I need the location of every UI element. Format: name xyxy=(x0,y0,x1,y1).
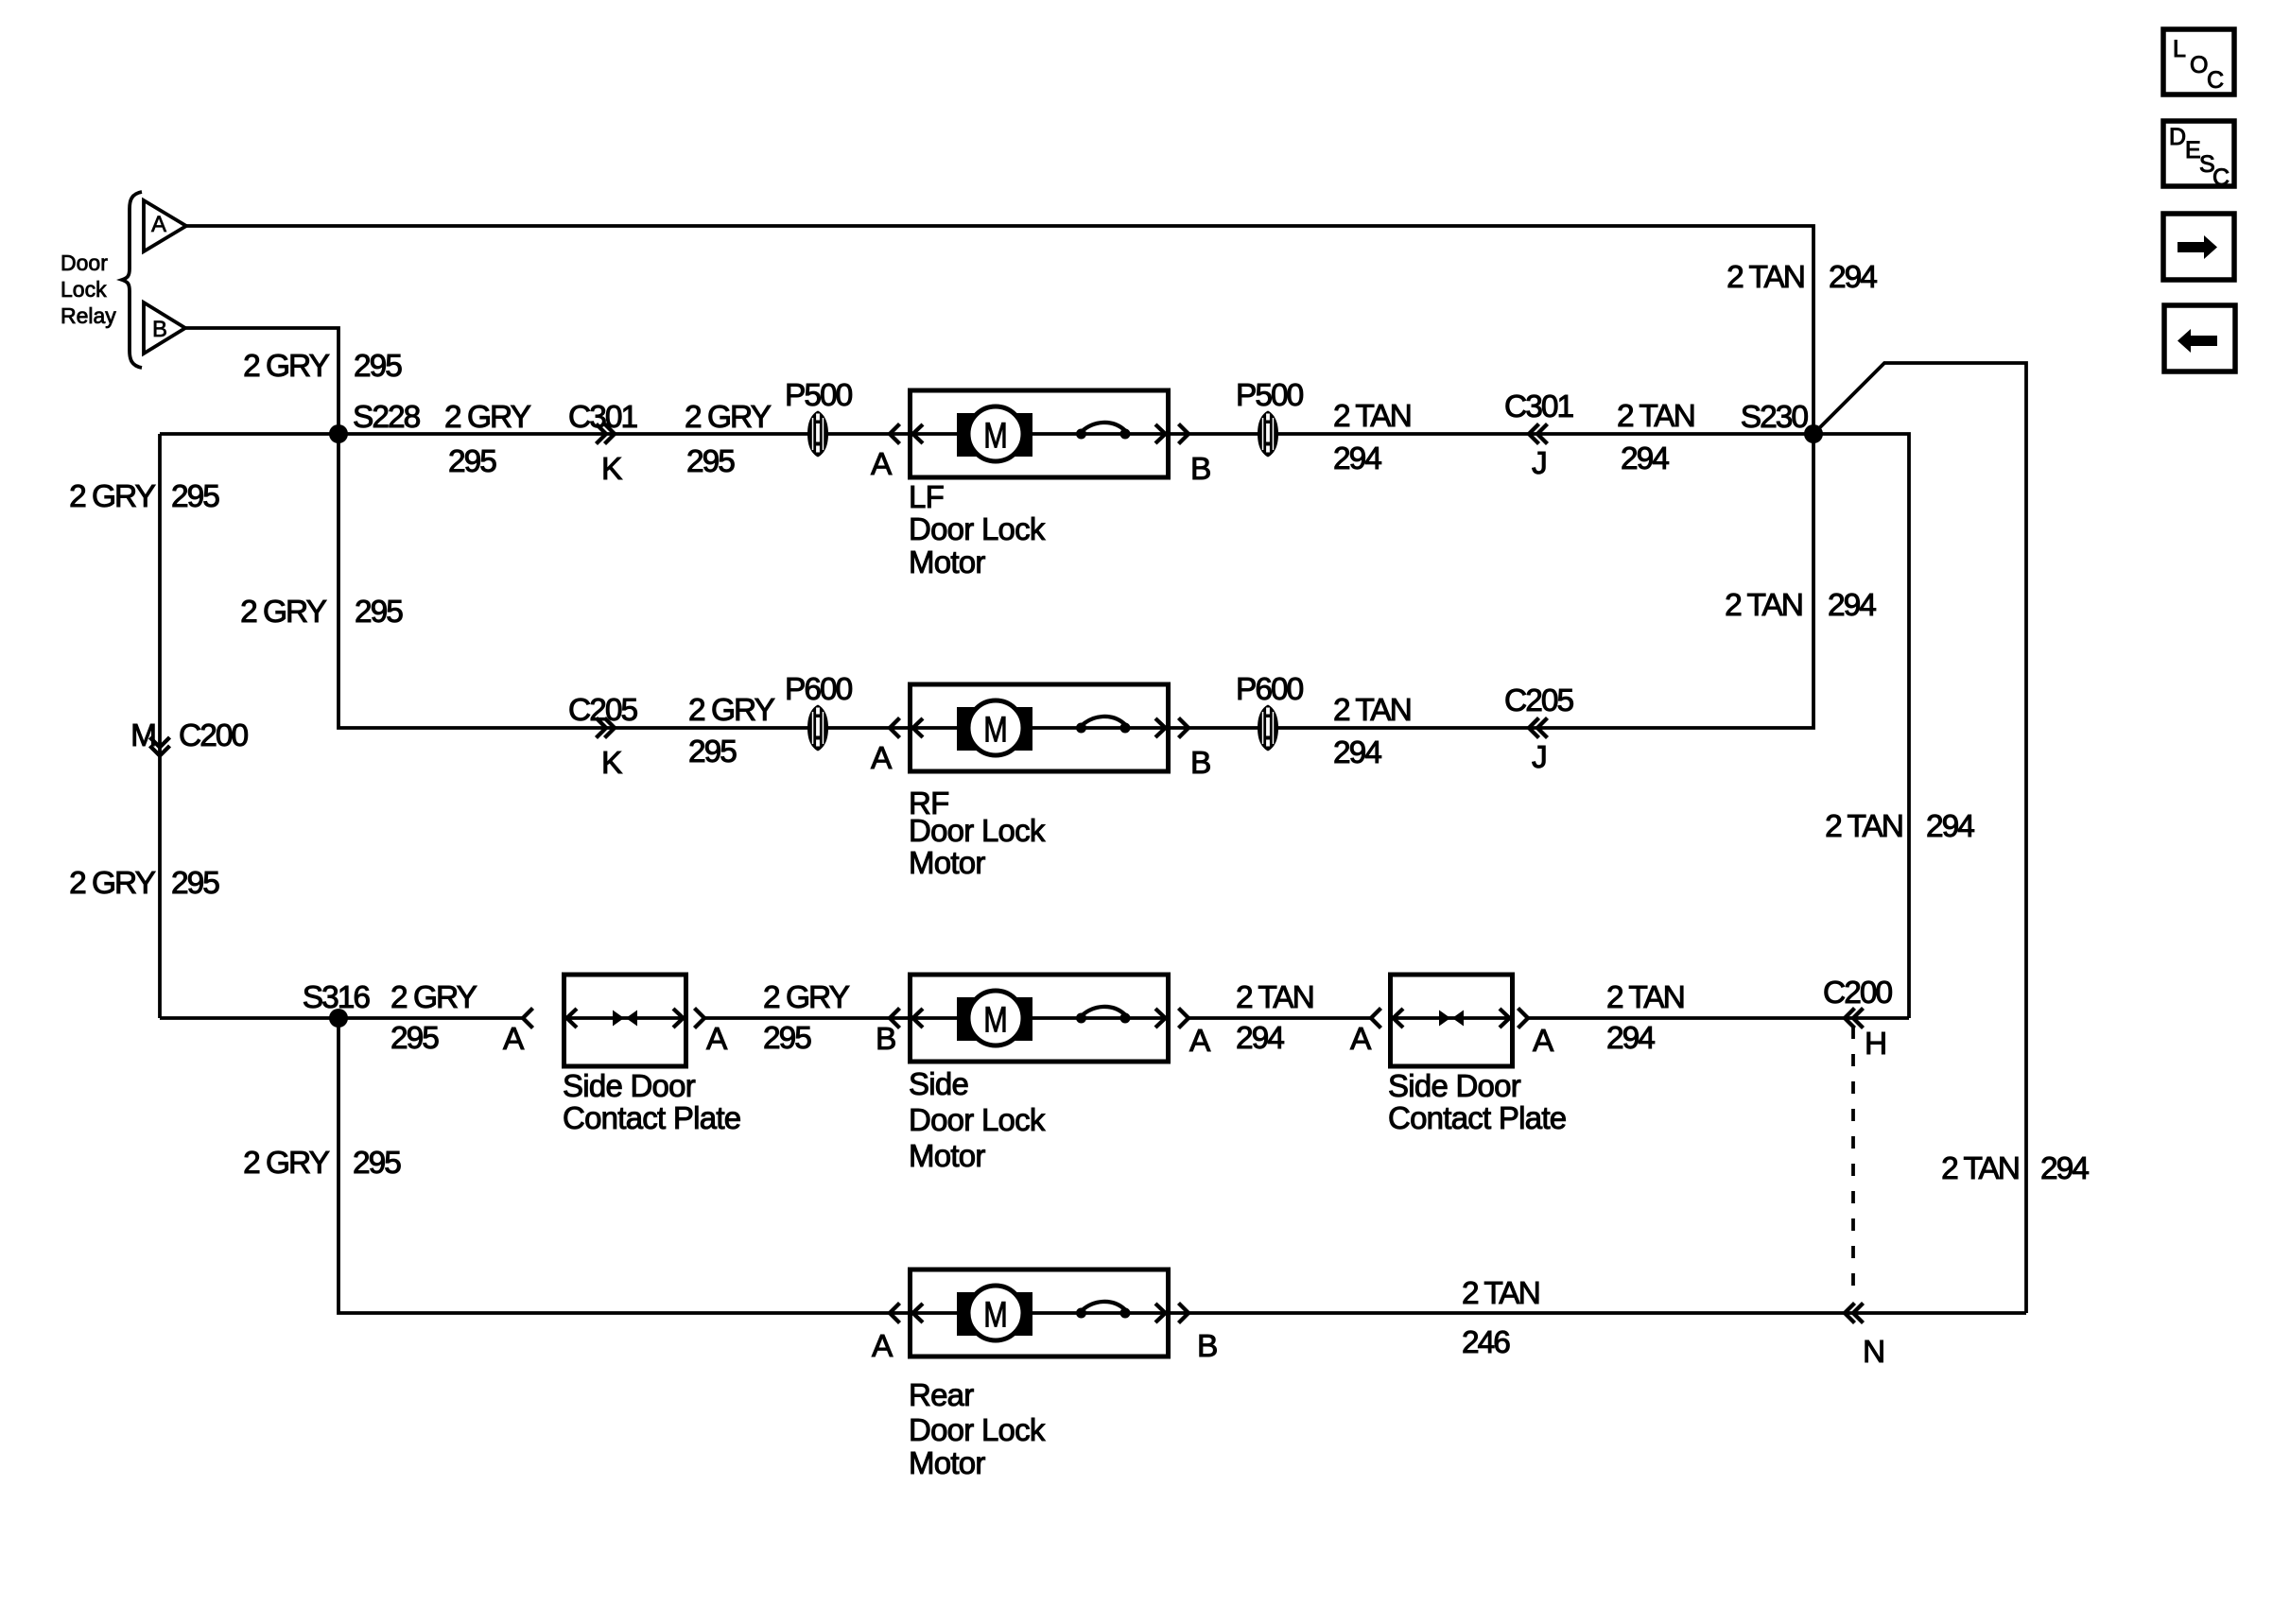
svg-text:B: B xyxy=(1197,1329,1217,1364)
svg-text:S230: S230 xyxy=(1741,400,1809,435)
grommet P500 (row1 right) xyxy=(1236,378,1304,458)
svg-text:J: J xyxy=(1532,740,1546,775)
svg-text:295: 295 xyxy=(763,1021,811,1056)
svg-text:Contact Plate: Contact Plate xyxy=(563,1100,740,1135)
svg-text:2 GRY: 2 GRY xyxy=(688,693,775,728)
svg-text:J: J xyxy=(1532,446,1546,481)
svg-text:C: C xyxy=(2212,164,2230,191)
wire: row3 side-door run xyxy=(160,1016,523,1020)
wire: S230 diagonal to far right bus (2 TAN 294) xyxy=(1813,363,2026,1313)
connector C200 pin N (row4) xyxy=(1845,1304,1883,1371)
wire: left vertical bus (2 GRY 295) xyxy=(158,434,162,1018)
svg-text:2 GRY: 2 GRY xyxy=(390,980,477,1015)
motor: rear door lock motor xyxy=(909,1270,1169,1480)
svg-text:B: B xyxy=(1190,452,1210,487)
wire: row1 LF return (pin B to S230 and to right bus) xyxy=(1171,434,1909,1018)
wire: relay B wire to S228 column xyxy=(185,328,338,434)
svg-text:A: A xyxy=(503,1022,525,1057)
icon: prev-page arrow button xyxy=(2164,305,2235,371)
svg-text:2 TAN: 2 TAN xyxy=(1333,399,1411,434)
svg-text:295: 295 xyxy=(353,1146,401,1181)
pin A of side motor (right) xyxy=(1179,1009,1212,1060)
svg-text:Contact Plate: Contact Plate xyxy=(1388,1100,1566,1135)
svg-text:2 TAN: 2 TAN xyxy=(1825,809,1902,844)
svg-text:294: 294 xyxy=(1926,809,1974,844)
pin B of RF motor xyxy=(1179,718,1211,782)
svg-text:295: 295 xyxy=(448,444,496,479)
svg-text:2 TAN: 2 TAN xyxy=(1606,980,1684,1015)
pin A of right contact plate xyxy=(1350,1009,1381,1058)
svg-text:A: A xyxy=(1533,1024,1554,1059)
svg-text:M: M xyxy=(130,718,155,753)
svg-text:246: 246 xyxy=(1462,1325,1510,1360)
svg-text:Rear: Rear xyxy=(909,1377,974,1412)
svg-text:C205: C205 xyxy=(568,693,637,728)
svg-text:2 GRY: 2 GRY xyxy=(240,595,327,630)
wire: row2 RF return up to S230 xyxy=(1171,434,1813,728)
svg-text:2 TAN: 2 TAN xyxy=(1941,1151,2019,1186)
relay brace xyxy=(122,192,142,368)
connector C301 pin K (row1) xyxy=(568,400,636,487)
svg-text:K: K xyxy=(601,452,622,487)
svg-text:2 TAN: 2 TAN xyxy=(1617,399,1694,434)
motor: side door lock motor xyxy=(909,975,1169,1173)
svg-text:N: N xyxy=(1863,1335,1883,1370)
svg-text:Relay: Relay xyxy=(61,303,116,328)
svg-text:Side Door: Side Door xyxy=(563,1068,696,1103)
side door contact plate (left) xyxy=(563,975,740,1135)
svg-text:2 GRY: 2 GRY xyxy=(685,400,772,435)
svg-text:Door: Door xyxy=(61,251,108,275)
connector C200 pin H (row3) xyxy=(1823,976,1892,1062)
svg-text:294: 294 xyxy=(2040,1151,2089,1186)
pin B of LF motor xyxy=(1179,424,1211,488)
icon: DESC button xyxy=(2163,121,2234,191)
svg-text:294: 294 xyxy=(1333,441,1381,476)
svg-text:295: 295 xyxy=(354,349,402,384)
svg-text:294: 294 xyxy=(1828,588,1876,623)
svg-text:Door Lock: Door Lock xyxy=(909,1412,1046,1447)
svg-text:L: L xyxy=(2173,36,2186,62)
svg-text:A: A xyxy=(871,741,893,776)
svg-text:295: 295 xyxy=(390,1021,439,1056)
pin A right of right plate xyxy=(1518,1009,1555,1060)
icon: LOC button xyxy=(2163,29,2234,95)
svg-text:P600: P600 xyxy=(1236,672,1304,707)
wire: row4 rear return to far right bus xyxy=(1171,1311,2026,1315)
svg-text:S316: S316 xyxy=(303,980,371,1015)
svg-text:Motor: Motor xyxy=(909,1138,985,1173)
svg-text:2 TAN: 2 TAN xyxy=(1333,693,1411,728)
relay terminal A (triangle) xyxy=(144,200,186,251)
svg-text:P600: P600 xyxy=(785,672,853,707)
svg-text:294: 294 xyxy=(1236,1021,1284,1056)
svg-text:2 GRY: 2 GRY xyxy=(444,400,531,435)
svg-text:295: 295 xyxy=(688,734,737,769)
svg-text:Door Lock: Door Lock xyxy=(909,813,1046,848)
svg-text:Door Lock: Door Lock xyxy=(909,511,1046,546)
side door contact plate (right) xyxy=(1388,975,1566,1135)
svg-text:C301: C301 xyxy=(568,400,636,435)
svg-text:A: A xyxy=(1350,1022,1372,1057)
svg-text:C200: C200 xyxy=(1823,976,1892,1011)
relay terminal B (triangle) xyxy=(144,302,185,354)
svg-text:C: C xyxy=(2207,67,2224,94)
wire: top wire from relay A to right corner xyxy=(186,226,1813,434)
svg-text:Lock: Lock xyxy=(61,277,107,302)
svg-text:C200: C200 xyxy=(179,718,248,753)
wire: dashed C200 H-N link xyxy=(1851,1027,1855,1296)
svg-text:Door Lock: Door Lock xyxy=(909,1102,1046,1137)
svg-text:Motor: Motor xyxy=(909,544,985,579)
svg-text:A: A xyxy=(872,1329,894,1364)
svg-text:295: 295 xyxy=(171,479,219,514)
svg-text:2 GRY: 2 GRY xyxy=(69,866,156,901)
svg-text:A: A xyxy=(871,447,893,482)
pin A of rear motor xyxy=(872,1304,900,1365)
svg-text:2 TAN: 2 TAN xyxy=(1725,588,1802,623)
grommet P600 (row2 right) xyxy=(1236,672,1304,752)
node S316 xyxy=(329,1009,348,1028)
wire: row1 LF feed (S228 to LF motor pin A) xyxy=(160,432,908,436)
grommet P600 (row2 left) xyxy=(785,672,853,752)
pin A of LF motor xyxy=(871,424,900,483)
connector C200 pin M (in-line, left bus) xyxy=(130,718,248,756)
pin B of side motor xyxy=(876,1009,900,1058)
svg-text:294: 294 xyxy=(1333,735,1381,770)
pin A right of left plate xyxy=(695,1009,729,1058)
svg-text:Side: Side xyxy=(909,1066,968,1101)
svg-text:295: 295 xyxy=(686,444,735,479)
grommet P500 (row1 left) xyxy=(785,378,853,458)
svg-text:2 TAN: 2 TAN xyxy=(1236,980,1313,1015)
connector C301 pin J (row1) xyxy=(1504,389,1572,481)
svg-text:O: O xyxy=(2190,52,2208,78)
connector C205 pin J (row2) xyxy=(1504,683,1573,775)
svg-text:LF: LF xyxy=(909,479,944,514)
svg-text:295: 295 xyxy=(171,866,219,901)
svg-text:295: 295 xyxy=(355,595,403,630)
motor: RF door lock motor xyxy=(909,684,1169,880)
connector C205 pin K (row2) xyxy=(568,693,637,781)
svg-text:A: A xyxy=(1189,1024,1211,1059)
svg-text:294: 294 xyxy=(1829,260,1877,295)
node S228 xyxy=(329,424,348,443)
svg-text:H: H xyxy=(1865,1027,1885,1062)
svg-text:B: B xyxy=(152,317,167,342)
svg-text:S228: S228 xyxy=(353,400,421,435)
svg-text:P500: P500 xyxy=(785,378,853,413)
svg-text:A: A xyxy=(706,1022,728,1057)
svg-text:294: 294 xyxy=(1606,1021,1655,1056)
svg-text:2 GRY: 2 GRY xyxy=(69,479,156,514)
svg-text:2 GRY: 2 GRY xyxy=(243,1146,330,1181)
pin B of rear motor xyxy=(1179,1304,1218,1365)
svg-text:C205: C205 xyxy=(1504,683,1573,718)
svg-text:2 TAN: 2 TAN xyxy=(1726,260,1804,295)
svg-text:Motor: Motor xyxy=(909,1445,985,1480)
motor: LF door lock motor xyxy=(909,390,1169,579)
pin A of left contact plate xyxy=(503,1009,533,1058)
svg-text:2 GRY: 2 GRY xyxy=(763,980,850,1015)
svg-text:B: B xyxy=(876,1022,895,1057)
svg-text:Side Door: Side Door xyxy=(1388,1068,1521,1103)
svg-text:A: A xyxy=(151,212,166,237)
svg-text:D: D xyxy=(2169,124,2186,150)
svg-text:Motor: Motor xyxy=(909,845,985,880)
icon: next-page arrow button xyxy=(2163,214,2234,280)
svg-text:2 GRY: 2 GRY xyxy=(243,349,330,384)
svg-text:2 TAN: 2 TAN xyxy=(1462,1276,1539,1311)
node S230 xyxy=(1804,424,1823,443)
svg-text:294: 294 xyxy=(1621,441,1669,476)
svg-text:C301: C301 xyxy=(1504,389,1572,424)
svg-text:B: B xyxy=(1190,746,1210,781)
wire: S316 column down to row4 xyxy=(338,1018,908,1313)
svg-text:K: K xyxy=(601,746,622,781)
wire: S228 column down to row2 xyxy=(338,434,908,728)
svg-text:P500: P500 xyxy=(1236,378,1304,413)
pin A of RF motor xyxy=(871,718,900,777)
